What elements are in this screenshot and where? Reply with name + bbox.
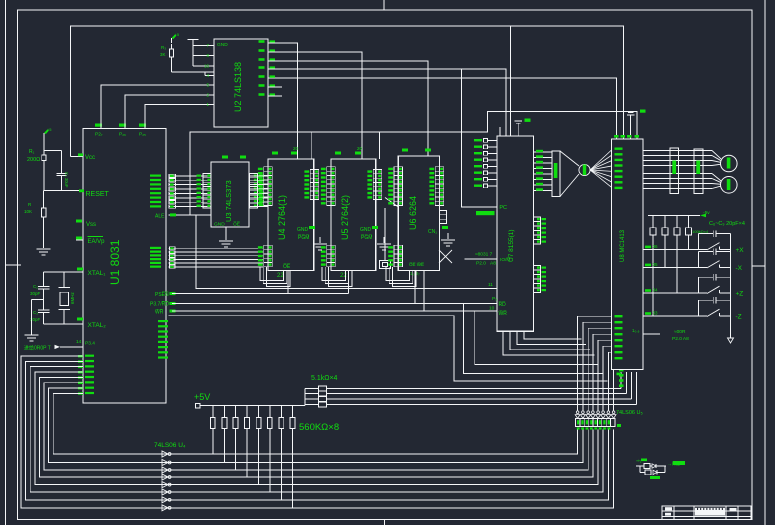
wire ALE distribution horizontal	[190, 112, 637, 216]
svg-text:U3 74LS373: U3 74LS373	[224, 180, 233, 222]
U5 top pins	[335, 152, 341, 155]
ground right of U5	[383, 237, 385, 243]
ribbon connector 2	[694, 149, 703, 194]
svg-text:P̅G̅M̅: P̅G̅M̅	[361, 234, 373, 241]
crystal Y1 6MHz	[63, 272, 65, 288]
U8 bottom pin labels	[619, 369, 624, 372]
svg-text:U1 8031: U1 8031	[108, 239, 122, 285]
funnel trapezoid to circle	[560, 151, 579, 166]
fold tick bottom	[383, 520, 385, 525]
bus U3 to U4	[249, 175, 268, 177]
bus P0 AD0-AD7 U1 to U3	[169, 175, 211, 177]
connector strip CN2	[576, 419, 616, 427]
svg-text:10: 10	[489, 306, 495, 312]
U2 power pins and ground	[188, 39, 199, 41]
wire U1 P2.6 to U2 B	[125, 95, 214, 129]
U6 right ladder	[435, 167, 444, 206]
U7 right funnel rows	[533, 151, 552, 153]
wire ALE to U7	[196, 215, 497, 289]
svg-text:O̅E̅: O̅E̅	[233, 221, 240, 228]
fold tick left	[6, 264, 22, 266]
svg-text:+X: +X	[736, 247, 745, 254]
U7 IO/M pin	[464, 258, 497, 260]
resistor R1 200	[44, 130, 49, 135]
U3 left ladder	[203, 174, 211, 208]
svg-text:PSE̅N̅: PSE̅N̅	[155, 291, 169, 298]
cap column drops	[652, 235, 654, 316]
svg-text:P̅G̅M̅: P̅G̅M̅	[298, 234, 310, 241]
svg-text:U8 MC1413: U8 MC1413	[620, 229, 626, 262]
svg-text:-5ᴠ: -5ᴠ	[703, 210, 710, 216]
ic U6 6264	[398, 156, 439, 271]
wire cascade P2.0	[454, 316, 608, 381]
ribbon connector 1	[670, 148, 679, 194]
wire R1 to C4 top	[44, 150, 62, 152]
fold tick right	[752, 265, 765, 267]
U4 left lower ladder	[264, 245, 273, 266]
svg-text:P2.0: P2.0	[476, 261, 486, 267]
svg-text:C₆~C₉ 20pF×4: C₆~C₉ 20pF×4	[709, 221, 745, 227]
svg-text:P₂₅: P₂₅	[139, 132, 146, 138]
svg-text:36: 36	[653, 244, 659, 249]
svg-text:C₃: C₃	[33, 310, 38, 315]
U7 AD pin boxes	[487, 139, 497, 141]
wire U6 OE to RD	[414, 271, 416, 304]
bus jogs under EPROMs	[260, 267, 284, 280]
wire PSEN row	[172, 293, 348, 295]
U2 Y5 Y6 stubs	[268, 86, 282, 88]
wire WR row	[172, 310, 497, 312]
ic U2 74LS138	[214, 39, 268, 127]
bus P2 A8-A12 U1 to U4	[169, 247, 263, 249]
P0 pin number boxes	[169, 174, 176, 177]
svg-text:RESET: RESET	[86, 191, 110, 198]
svg-text:C₂: C₂	[33, 284, 38, 289]
svg-text:3K: 3K	[160, 52, 166, 57]
U5 left upper ladder	[327, 167, 336, 206]
svg-text:R̅D̅: R̅D̅	[498, 301, 506, 308]
svg-text:≈8031 7: ≈8031 7	[475, 252, 493, 258]
U1 right lower labels	[158, 320, 168, 322]
svg-text:ALE: ALE	[155, 214, 165, 220]
U6 left upper ladder	[394, 167, 403, 206]
wire U4 PGM drop	[311, 132, 313, 159]
wire RD row	[172, 303, 497, 305]
svg-text:O̅E̅ W̅E̅: O̅E̅ W̅E̅	[409, 261, 425, 267]
svg-text:W̅R̅: W̅R̅	[499, 310, 508, 317]
wire U2 Y0 to U4 CE	[268, 43, 298, 159]
svg-text:P2.0 A8: P2.0 A8	[672, 336, 689, 342]
fold tick top	[383, 0, 385, 10]
U8 left pin labels upper	[615, 148, 623, 150]
title block	[662, 506, 751, 520]
svg-text:14: 14	[76, 339, 82, 345]
switch common bus	[730, 234, 732, 338]
svg-text:U5 2764(2): U5 2764(2)	[340, 195, 350, 240]
svg-text:6MHz: 6MHz	[70, 291, 75, 304]
switch +Z	[643, 292, 707, 294]
wire XTAL1 row	[44, 271, 83, 273]
switch -X	[643, 266, 707, 268]
wire U2 Y2 to U6 CE	[268, 61, 428, 156]
U7 right pin ladder A	[533, 217, 540, 244]
svg-text:16: 16	[204, 64, 210, 69]
connector box on wire	[380, 261, 391, 269]
inverters 74LS06 column	[612, 411, 615, 414]
wire U2 Y3 to U7 CE	[268, 69, 506, 136]
ground crystal	[32, 299, 44, 301]
wire ALE to U3 G	[169, 214, 211, 216]
svg-text:P2₇: P2₇	[95, 132, 103, 138]
svg-text:P3.4: P3.4	[85, 341, 95, 347]
capacitor rail -5V	[648, 214, 700, 216]
svg-text:Vcc: Vcc	[85, 155, 95, 161]
resistor network 560K x8	[212, 406, 214, 418]
U4 top pins	[272, 152, 278, 155]
wire cascade U7 PA pins	[503, 331, 594, 355]
svg-text:33: 33	[653, 311, 659, 316]
ground right of U4	[319, 237, 321, 243]
svg-text:P3.7/R̅D̅: P3.7/R̅D̅	[150, 301, 169, 308]
svg-text:11: 11	[488, 282, 493, 288]
wire cascade RD branch	[464, 304, 603, 374]
svg-text:+Z: +Z	[736, 291, 744, 298]
wire Y3 branch to U7 PC	[462, 69, 497, 207]
wire cascade WR branch	[475, 311, 599, 364]
wire U1 P2.7 to U2 A	[101, 85, 214, 129]
svg-text:74LS06 U₅: 74LS06 U₅	[616, 410, 643, 416]
U4 right ladder	[310, 170, 319, 200]
U8 right ribbon	[644, 150, 712, 152]
switch -Z	[643, 315, 707, 317]
svg-text:W̅R̅: W̅R̅	[155, 309, 164, 316]
wire U2 Y4 to U8	[268, 78, 617, 139]
wire Vcc row	[71, 155, 84, 157]
svg-text:34: 34	[653, 288, 659, 293]
wire P2.0 row	[169, 315, 454, 317]
svg-text:20: 20	[293, 146, 299, 151]
svg-text:+5V: +5V	[194, 392, 210, 402]
svg-text:+5: +5	[175, 32, 180, 37]
svg-text:5.1kΩ×4: 5.1kΩ×4	[311, 375, 338, 382]
svg-text:Vss: Vss	[86, 222, 96, 228]
U3 right ladder	[250, 174, 258, 208]
ic U8 driver	[612, 139, 644, 370]
svg-text:22: 22	[340, 273, 347, 279]
svg-text:U2 74LS138: U2 74LS138	[233, 62, 243, 112]
U8 P20 pin row	[643, 333, 660, 335]
ground below R2	[37, 248, 51, 250]
wire U6 WE to WR	[423, 271, 425, 311]
ic U7 8155	[497, 136, 533, 331]
svg-text:EA/Vp: EA/Vp	[88, 239, 106, 245]
U8 left pin labels lower	[615, 315, 623, 317]
svg-text:10K: 10K	[24, 209, 32, 214]
U7 right pin ladder B	[533, 266, 540, 293]
wire RESET row	[44, 190, 83, 192]
svg-text:XTAL₂: XTAL₂	[88, 322, 107, 329]
bus U8 input columns	[613, 358, 615, 410]
wire U5 PGM drop	[378, 132, 380, 159]
wire R3 to U2 G1	[172, 71, 215, 73]
ic U3 74LS373	[211, 162, 249, 227]
svg-text:-Z: -Z	[736, 314, 742, 321]
svg-text:进给0R0P T: 进给0R0P T	[24, 345, 51, 352]
U5 right ladder	[373, 170, 382, 200]
svg-text:GND: GND	[360, 227, 372, 233]
wire U1 P2.5 to U2 C	[145, 104, 214, 128]
ground below U3	[225, 227, 227, 240]
svg-text:GND: GND	[214, 222, 225, 228]
ic U5 2764(2)	[331, 159, 376, 271]
U5 left lower ladder	[327, 245, 336, 266]
svg-text:R₁: R₁	[29, 149, 35, 155]
svg-text:IO/M̅: IO/M̅	[500, 256, 510, 263]
svg-text:GND: GND	[297, 227, 309, 233]
U2 right pin labels	[259, 40, 265, 43]
wire U2 Y1 to U5 CE	[268, 52, 362, 159]
sheet border left edge	[5, 0, 7, 525]
svg-text:A8: A8	[490, 261, 496, 267]
svg-text:30pF: 30pF	[30, 291, 41, 296]
svg-text:1₀,₉: 1₀,₉	[632, 328, 640, 333]
svg-text:R₃: R₃	[161, 45, 166, 50]
svg-text:C₄ 30uF: C₄ 30uF	[64, 172, 69, 188]
U1 P2 labels	[150, 247, 161, 249]
capacitor C4 30uF	[61, 151, 63, 174]
wire U5 OE drop	[347, 271, 349, 294]
inverters 74LS06 row	[162, 505, 168, 511]
ic U1 8031	[83, 129, 166, 403]
U8 top pins	[630, 115, 632, 140]
ic U4 2764(1)	[268, 159, 314, 271]
U6 left lower ladder	[394, 245, 403, 266]
svg-text:U6 6264: U6 6264	[408, 196, 418, 230]
svg-text:+5: +5	[47, 127, 52, 132]
svg-text:560KΩ×8: 560KΩ×8	[299, 422, 339, 433]
U3 top pin numbers	[222, 156, 228, 159]
svg-text:74LS06 U₄: 74LS06 U₄	[154, 442, 186, 449]
wire +5V branch to U7	[510, 26, 512, 136]
funnel connector	[552, 151, 560, 197]
switch +X	[643, 248, 707, 250]
round connector X	[712, 151, 721, 159]
fan from circle to U8	[590, 149, 613, 170]
resistor R3 pullup	[172, 35, 177, 40]
U4 left upper ladder	[264, 167, 273, 206]
svg-text:-X: -X	[736, 265, 743, 272]
svg-text:U4 2764(1): U4 2764(1)	[277, 195, 287, 240]
svg-text:P₂₆: P₂₆	[119, 132, 126, 138]
svg-text:20: 20	[357, 146, 363, 151]
U6 top pin	[402, 149, 408, 152]
svg-text:CN₁: CN₁	[428, 229, 437, 235]
wire +5V top rail	[71, 26, 624, 157]
U1 P1 port labels	[85, 355, 94, 357]
svg-text:PC: PC	[499, 205, 507, 211]
svg-text:GND: GND	[217, 42, 228, 48]
wire XTAL2 row	[44, 323, 83, 325]
sheet border right edge	[764, 0, 766, 525]
svg-text:≈00R: ≈00R	[674, 329, 686, 335]
U1 P0 pin labels	[150, 175, 161, 177]
bus P1 nested left	[21, 356, 614, 508]
svg-text:200Ω: 200Ω	[27, 157, 40, 163]
svg-text:⇒₁: ⇒₁	[636, 458, 642, 463]
no-connect cross	[439, 250, 452, 263]
U1 top pins	[95, 124, 102, 127]
round connector Z	[712, 174, 721, 181]
U7 top pins	[499, 127, 501, 136]
capacitor network 20pF x4	[652, 215, 654, 227]
U1 P3.4 pin with tag	[60, 346, 83, 348]
svg-text:P₅: P₅	[492, 296, 497, 302]
svg-text:35: 35	[653, 262, 659, 267]
wire EA row	[76, 239, 83, 241]
svg-text:XTAL₁: XTAL₁	[88, 270, 107, 277]
svg-text:O̅E̅: O̅E̅	[283, 263, 291, 270]
